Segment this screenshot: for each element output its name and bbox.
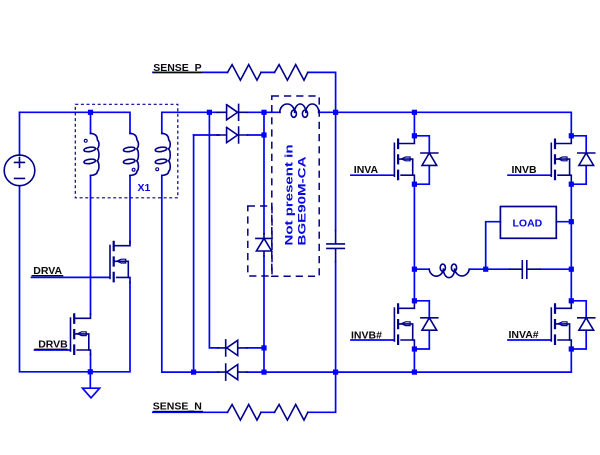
- svg-text:INVA#: INVA#: [509, 329, 539, 341]
- svg-text:INVB: INVB: [512, 164, 538, 176]
- svg-text:BGE90M-CA: BGE90M-CA: [296, 156, 308, 245]
- svg-text:INVA: INVA: [354, 164, 379, 176]
- svg-text:INVB#: INVB#: [351, 329, 382, 341]
- svg-text:Not present in: Not present in: [284, 144, 296, 245]
- svg-text:X1: X1: [138, 182, 151, 194]
- svg-text:LOAD: LOAD: [513, 217, 543, 229]
